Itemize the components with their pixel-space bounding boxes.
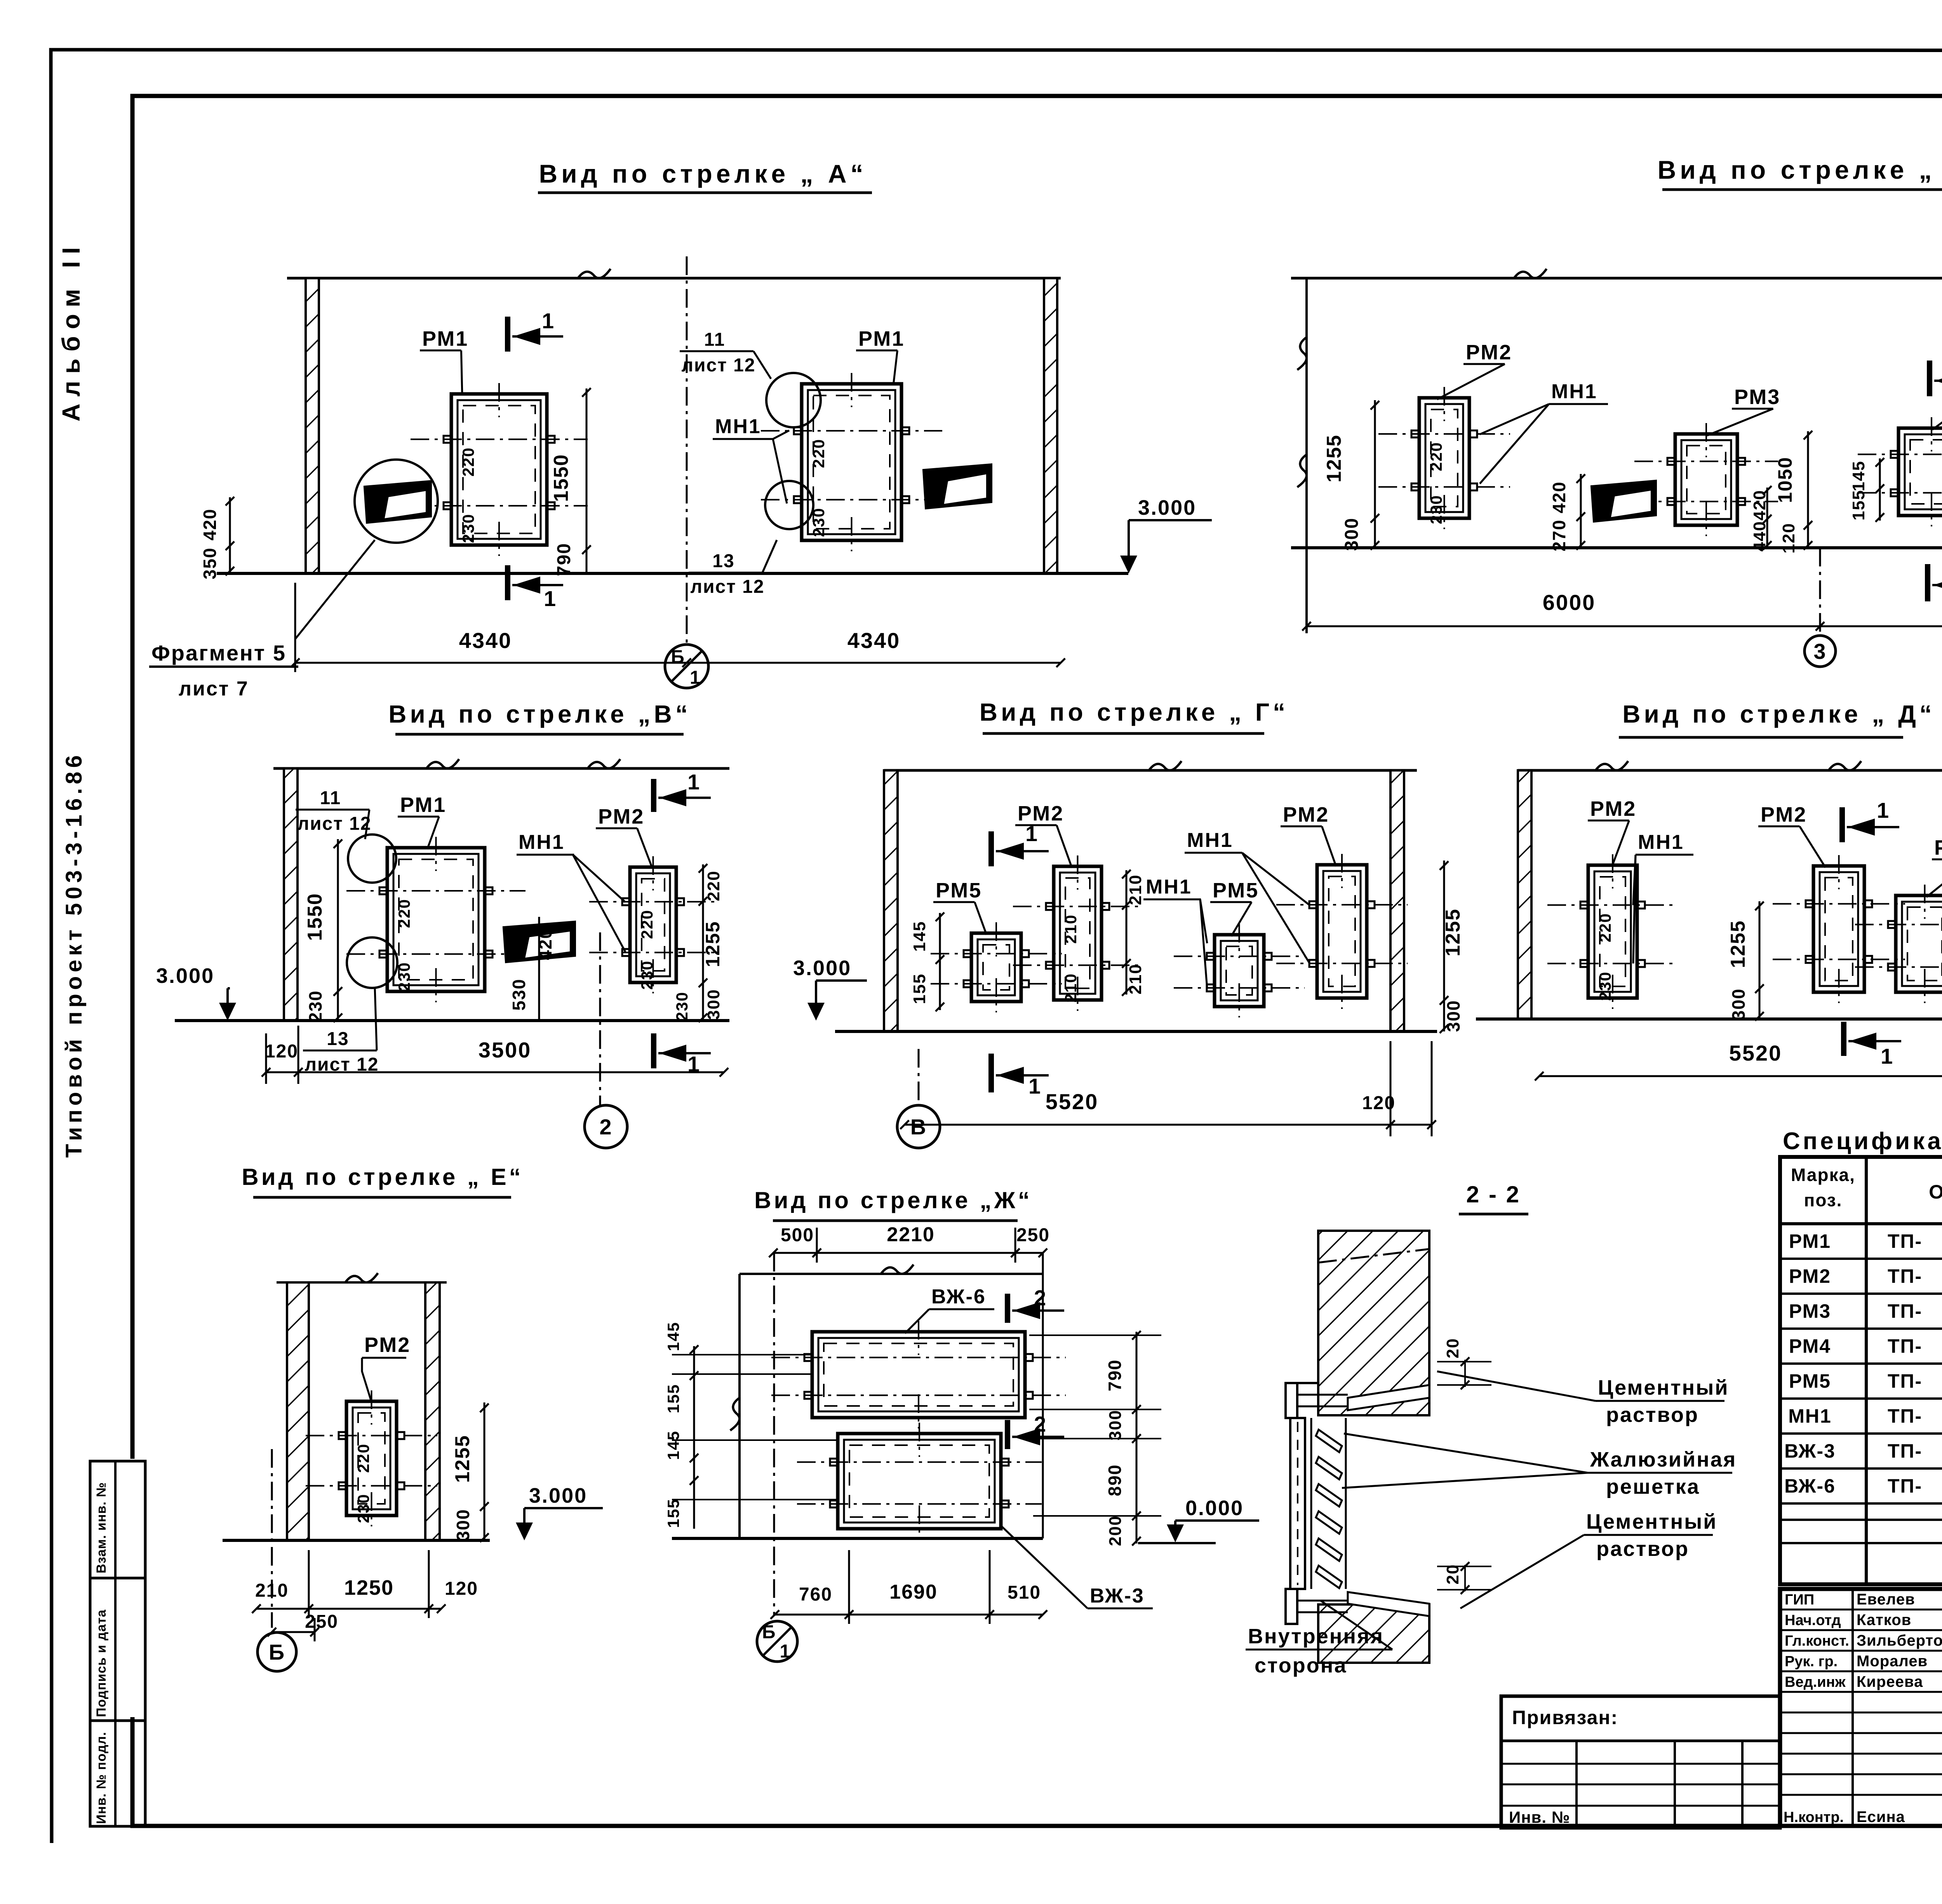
svg-text:220: 220 xyxy=(354,1443,372,1473)
svg-text:Б: Б xyxy=(762,1622,776,1643)
svg-text:1255: 1255 xyxy=(1442,908,1464,956)
view A frame RM1 #1 xyxy=(451,394,547,545)
view Zh section mark 2 upper xyxy=(1005,1294,1010,1323)
svg-text:1255: 1255 xyxy=(1323,434,1345,483)
view V dim 530/420 on wedge xyxy=(538,917,540,1021)
svg-text:1: 1 xyxy=(544,586,556,611)
view B axis line 3 xyxy=(1819,548,1821,633)
svg-text:РМ5: РМ5 xyxy=(1213,879,1259,902)
view E left pier hatch xyxy=(287,1282,309,1540)
view G frame RM5 #1 xyxy=(971,933,1021,1002)
svg-text:МН1: МН1 xyxy=(1788,1405,1832,1427)
view A dim 1550 right of frame1 xyxy=(586,388,588,573)
title block outline xyxy=(1780,1589,1942,1826)
title block signature grid xyxy=(1852,1589,1854,1826)
svg-text:ТП-: ТП- xyxy=(1888,1370,1922,1392)
view V callout circle top xyxy=(348,834,396,883)
svg-text:1550: 1550 xyxy=(550,454,573,502)
view V frame RM1 xyxy=(387,848,485,991)
svg-text:760: 760 xyxy=(799,1584,832,1605)
svg-text:1: 1 xyxy=(690,667,701,688)
svg-text:ВЖ-3: ВЖ-3 xyxy=(1090,1585,1145,1607)
view B frame RM3 #2 xyxy=(1898,428,1942,516)
svg-text:790: 790 xyxy=(1105,1359,1125,1392)
svg-text:155: 155 xyxy=(664,1498,682,1528)
svg-text:4340: 4340 xyxy=(459,628,512,653)
svg-text:300: 300 xyxy=(1728,988,1749,1021)
svg-text:210: 210 xyxy=(255,1580,289,1601)
svg-text:4340: 4340 xyxy=(847,628,901,653)
view B dim 1050/120 xyxy=(1807,431,1809,548)
svg-text:11: 11 xyxy=(704,329,726,350)
svg-text:Альбом II: Альбом II xyxy=(57,240,85,422)
section 2-2 louvre frame vertical xyxy=(1290,1418,1305,1589)
view B frame RM2 xyxy=(1419,398,1469,518)
svg-text:230: 230 xyxy=(354,1494,372,1523)
svg-text:2: 2 xyxy=(1034,1412,1046,1436)
svg-text:МН1: МН1 xyxy=(715,415,761,438)
svg-text:МН1: МН1 xyxy=(1187,829,1233,852)
svg-text:Вид по стрелке „В“: Вид по стрелке „В“ xyxy=(388,700,691,728)
view Zh frame VZh-3 xyxy=(838,1434,1001,1529)
section 2-2 lower frame part xyxy=(1286,1589,1297,1624)
view A axis line Б/1 xyxy=(686,256,688,644)
view Zh dims left 145/155/145/155 xyxy=(693,1346,695,1529)
view V wedge xyxy=(504,922,574,962)
view D left pier hatch xyxy=(1518,770,1531,1019)
svg-text:1: 1 xyxy=(780,1641,791,1662)
svg-text:230: 230 xyxy=(673,991,691,1021)
svg-text:1255: 1255 xyxy=(1727,920,1749,968)
svg-text:230: 230 xyxy=(459,514,477,543)
svg-text:13: 13 xyxy=(712,551,734,571)
view A callout circle MH1 bottom xyxy=(765,481,813,529)
svg-text:220: 220 xyxy=(638,909,656,939)
view Zh axis circle Б/1 xyxy=(757,1621,797,1662)
svg-text:Вид по стрелке „ Д“: Вид по стрелке „ Д“ xyxy=(1622,700,1935,728)
view G ground line xyxy=(835,1030,1437,1033)
svg-text:120: 120 xyxy=(265,1041,298,1062)
svg-text:лист 12: лист 12 xyxy=(691,577,765,597)
svg-text:420: 420 xyxy=(200,509,220,541)
svg-text:300: 300 xyxy=(1106,1409,1125,1440)
view B axis circle 3 xyxy=(1805,636,1836,667)
view Zh bottom dim row 760 1690 510 xyxy=(775,1614,1043,1616)
view Zh top dim row 500 2210 250 xyxy=(773,1252,1043,1254)
svg-text:530: 530 xyxy=(509,979,529,1011)
view A axis circle Б/1 xyxy=(665,645,708,688)
view B wall top line xyxy=(1291,277,1942,280)
view G frame RM5 #2 xyxy=(1215,935,1264,1007)
svg-text:РМ2: РМ2 xyxy=(1789,1265,1831,1287)
svg-text:13: 13 xyxy=(327,1029,349,1049)
svg-text:МН1: МН1 xyxy=(1638,831,1684,854)
svg-text:220: 220 xyxy=(459,447,477,477)
view B dims 145/155 left of RM4 xyxy=(1879,458,1881,521)
svg-text:3.000: 3.000 xyxy=(529,1484,587,1507)
svg-text:РМ2: РМ2 xyxy=(1466,341,1512,364)
svg-text:420: 420 xyxy=(1549,481,1569,514)
svg-text:3.000: 3.000 xyxy=(1138,496,1196,519)
svg-text:210: 210 xyxy=(1061,973,1080,1003)
svg-text:300: 300 xyxy=(453,1509,473,1541)
svg-text:ВЖ-6: ВЖ-6 xyxy=(1784,1475,1836,1497)
view D section mark lower xyxy=(1841,1022,1846,1056)
svg-text:3500: 3500 xyxy=(479,1038,532,1062)
section 2-2 louvre blades xyxy=(1316,1430,1342,1588)
svg-text:Киреева: Киреева xyxy=(1857,1673,1923,1690)
svg-text:Б: Б xyxy=(671,647,685,667)
svg-text:220: 220 xyxy=(395,899,413,928)
svg-text:Б: Б xyxy=(269,1640,285,1664)
svg-text:145: 145 xyxy=(1849,460,1868,491)
view G axis circle В xyxy=(918,1049,920,1105)
svg-text:145: 145 xyxy=(664,1430,682,1460)
view E dims 1255/300 right xyxy=(484,1402,486,1540)
svg-text:Вид по стрелке „ Г“: Вид по стрелке „ Г“ xyxy=(980,698,1289,726)
svg-text:ТП-: ТП- xyxy=(1888,1335,1922,1357)
svg-text:200: 200 xyxy=(1106,1515,1125,1546)
svg-text:Типовой проект 503-3-16.86: Типовой проект 503-3-16.86 xyxy=(61,751,87,1158)
svg-text:ТП-: ТП- xyxy=(1888,1440,1922,1462)
svg-text:300: 300 xyxy=(1342,517,1362,551)
view G frame RM2 #1 xyxy=(1054,866,1102,1000)
svg-text:145: 145 xyxy=(664,1322,682,1351)
view B dims 440/420 right of RM3#1 xyxy=(1766,488,1768,548)
svg-text:Вид по стрелке „ Б“: Вид по стрелке „ Б“ xyxy=(1658,155,1942,184)
svg-text:РМ2: РМ2 xyxy=(1283,803,1329,826)
svg-text:лист 12: лист 12 xyxy=(682,355,756,376)
svg-text:5520: 5520 xyxy=(1046,1089,1099,1114)
svg-text:МН1: МН1 xyxy=(1146,876,1192,898)
svg-text:Зильбертов: Зильбертов xyxy=(1857,1632,1942,1649)
view A dims 350 420 left xyxy=(229,497,231,573)
view Zh dims right 790/300/890/200 xyxy=(1136,1332,1138,1543)
svg-text:155: 155 xyxy=(1849,490,1868,520)
view B ground line xyxy=(1291,546,1942,549)
svg-text:1050: 1050 xyxy=(1774,456,1796,503)
svg-text:6000: 6000 xyxy=(1543,590,1596,615)
view D dim row 5520+210 xyxy=(1539,1075,1942,1077)
svg-text:Обозначение: Обозначение xyxy=(1929,1181,1942,1203)
left margin stamp boxes xyxy=(90,1461,145,1826)
view V frame RM2 xyxy=(630,867,676,982)
section 2-2 lower wall block xyxy=(1318,1604,1429,1663)
svg-text:20: 20 xyxy=(1443,1338,1462,1359)
svg-text:500: 500 xyxy=(781,1225,814,1246)
view A dim row 4340+4340 xyxy=(295,662,1061,664)
svg-text:1690: 1690 xyxy=(889,1581,938,1603)
svg-text:лист 7: лист 7 xyxy=(179,678,249,700)
view V axis circle 2 xyxy=(585,1105,627,1148)
svg-text:РМ2: РМ2 xyxy=(364,1333,411,1357)
svg-text:Марка,: Марка, xyxy=(1791,1165,1855,1185)
svg-text:Катков: Катков xyxy=(1857,1611,1911,1629)
svg-text:210: 210 xyxy=(1126,874,1145,905)
view G right pier hatch xyxy=(1390,770,1404,1031)
view G dims 1255/300 right xyxy=(1443,861,1445,1031)
view E axis circle Б xyxy=(258,1632,296,1671)
view G dim row 5520+120 xyxy=(905,1124,1432,1126)
view B dim row 6000+6000 xyxy=(1307,625,1942,627)
svg-text:11: 11 xyxy=(320,788,341,808)
svg-text:2: 2 xyxy=(599,1115,612,1139)
section 2-2 upper frame part xyxy=(1293,1382,1318,1384)
svg-text:350: 350 xyxy=(200,547,220,580)
section 2-2 upper wall block xyxy=(1318,1231,1429,1415)
view E axis line xyxy=(271,1449,273,1628)
svg-text:раствор: раствор xyxy=(1606,1403,1699,1427)
spec table grid xyxy=(1780,1157,1942,1584)
svg-text:Рук. гр.: Рук. гр. xyxy=(1785,1653,1838,1670)
view Zh ground line xyxy=(672,1537,1043,1540)
svg-text:Внутренняя: Внутренняя xyxy=(1248,1625,1384,1648)
svg-text:1255: 1255 xyxy=(451,1435,474,1483)
svg-text:РМ3: РМ3 xyxy=(1789,1300,1831,1322)
svg-text:5520: 5520 xyxy=(1729,1041,1782,1065)
svg-text:220: 220 xyxy=(1596,913,1614,942)
svg-text:1: 1 xyxy=(1877,798,1889,822)
view B dims 420/270 xyxy=(1580,474,1582,548)
svg-text:Цементный: Цементный xyxy=(1598,1376,1729,1399)
svg-text:ГИП: ГИП xyxy=(1785,1592,1814,1608)
view V dim row 120+3500 xyxy=(266,1071,724,1073)
view A right pier hatch xyxy=(1044,278,1057,573)
view A fragment leader xyxy=(295,540,375,639)
view E dim row 210 1250 120 xyxy=(256,1608,441,1610)
view Zh wall left edge xyxy=(738,1274,741,1538)
privyazan box xyxy=(1501,1696,1780,1828)
view A section mark 1 upper xyxy=(505,317,510,352)
view D frame RM3 xyxy=(1896,895,1942,992)
svg-text:3: 3 xyxy=(1813,639,1826,664)
svg-text:МН1: МН1 xyxy=(519,831,565,854)
svg-text:ТП-: ТП- xyxy=(1888,1475,1922,1497)
view E right pier hatch xyxy=(425,1282,440,1540)
view A callout circle MH1 top xyxy=(766,373,821,427)
svg-text:155: 155 xyxy=(664,1384,682,1413)
svg-text:Фрагмент 5: Фрагмент 5 xyxy=(151,641,286,665)
view G left pier hatch xyxy=(884,770,898,1031)
svg-text:790: 790 xyxy=(554,543,574,576)
svg-text:Гл.конст.: Гл.конст. xyxy=(1785,1633,1849,1649)
view V callout circle bottom xyxy=(347,937,397,988)
svg-text:решетка: решетка xyxy=(1606,1475,1700,1498)
svg-text:300: 300 xyxy=(704,989,723,1019)
svg-text:Н.контр.: Н.контр. xyxy=(1784,1809,1844,1826)
svg-text:ТП-: ТП- xyxy=(1888,1265,1922,1287)
svg-text:210: 210 xyxy=(1126,963,1145,994)
svg-text:РМ2: РМ2 xyxy=(1018,802,1064,825)
view D frame RM2 #1 xyxy=(1588,865,1637,998)
svg-text:120: 120 xyxy=(445,1578,478,1599)
view G frame RM2 #2 xyxy=(1317,865,1367,998)
view Zh frame VZh-6 xyxy=(812,1332,1025,1418)
view G section mark upper xyxy=(988,831,994,866)
svg-text:2: 2 xyxy=(1034,1286,1046,1310)
svg-text:лист 12: лист 12 xyxy=(298,814,372,834)
view A ground line xyxy=(217,572,1128,575)
svg-text:270: 270 xyxy=(1549,519,1569,552)
view E ground line xyxy=(223,1539,490,1542)
svg-text:250: 250 xyxy=(1016,1225,1050,1246)
svg-text:220: 220 xyxy=(809,439,828,468)
view G dims 210/210 right of RM2#1 xyxy=(1126,870,1128,995)
view B section mark 1 lower xyxy=(1925,564,1930,601)
view B left wall edge line xyxy=(1305,278,1308,633)
svg-text:230: 230 xyxy=(1596,971,1614,1001)
view G section mark lower xyxy=(988,1054,994,1092)
svg-text:Взам. инв. №: Взам. инв. № xyxy=(94,1482,109,1573)
svg-text:220: 220 xyxy=(1427,442,1445,471)
svg-text:РМ4: РМ4 xyxy=(1789,1335,1831,1357)
view V dims 220/1255/300 right xyxy=(702,864,704,1021)
svg-text:Спецификация элементов: Спецификация элементов обрамления проемо… xyxy=(1783,1128,1942,1155)
svg-text:Вид по стрелке „Ж“: Вид по стрелке „Ж“ xyxy=(754,1187,1032,1213)
svg-text:1550: 1550 xyxy=(304,893,326,941)
svg-text:3.000: 3.000 xyxy=(156,964,214,988)
svg-text:РМ3: РМ3 xyxy=(1734,385,1780,409)
view V section mark lower xyxy=(651,1033,656,1068)
view E dim 250 xyxy=(272,1631,315,1633)
view V dims 1550/230 left xyxy=(337,839,339,1021)
svg-text:ТП-: ТП- xyxy=(1888,1405,1922,1427)
view B frame RM3 #1 xyxy=(1675,434,1737,525)
svg-text:ВЖ-6: ВЖ-6 xyxy=(931,1286,986,1308)
svg-text:РМ3: РМ3 xyxy=(1934,836,1942,859)
svg-text:420: 420 xyxy=(1750,490,1769,520)
svg-text:Есина: Есина xyxy=(1857,1808,1905,1826)
view V ground line xyxy=(175,1019,729,1022)
svg-text:1: 1 xyxy=(1025,821,1037,846)
svg-text:2 - 2: 2 - 2 xyxy=(1466,1181,1521,1207)
view A frame RM1 #2 xyxy=(802,384,901,540)
svg-text:890: 890 xyxy=(1105,1464,1125,1496)
svg-text:раствор: раствор xyxy=(1596,1537,1689,1561)
svg-text:120: 120 xyxy=(1779,523,1798,553)
svg-text:Вид по стрелке „ А“: Вид по стрелке „ А“ xyxy=(539,159,867,188)
view G wall top line xyxy=(884,769,1417,772)
svg-text:Подпись и дата: Подпись и дата xyxy=(94,1609,109,1717)
view A fragment wedge xyxy=(365,482,430,522)
svg-text:ТП-: ТП- xyxy=(1888,1230,1922,1252)
svg-text:РМ1: РМ1 xyxy=(422,327,468,350)
view E frame RM2 xyxy=(346,1401,397,1516)
view Zh wall top line xyxy=(740,1273,1043,1275)
view G dims 145/155 left xyxy=(939,913,941,1010)
svg-text:1250: 1250 xyxy=(344,1576,394,1599)
svg-text:РМ1: РМ1 xyxy=(1789,1230,1831,1252)
svg-text:1255: 1255 xyxy=(702,921,724,967)
svg-text:В: В xyxy=(910,1115,927,1139)
svg-text:Евелев: Евелев xyxy=(1857,1591,1915,1608)
svg-text:210: 210 xyxy=(1061,914,1080,944)
view B dim 1255/300 left xyxy=(1374,400,1376,548)
svg-text:Инв. №: Инв. № xyxy=(1509,1808,1570,1826)
view V axis line 2 xyxy=(599,932,601,1107)
view A wall top line xyxy=(287,277,1061,280)
view D wall top line xyxy=(1518,769,1942,772)
svg-text:РМ1: РМ1 xyxy=(400,793,446,817)
view D ground line xyxy=(1476,1017,1942,1021)
view V wall top line xyxy=(273,767,729,770)
svg-text:РМ5: РМ5 xyxy=(1789,1370,1831,1392)
view D frame RM2 #2 xyxy=(1813,866,1864,992)
svg-text:РМ2: РМ2 xyxy=(1590,797,1636,820)
view Zh wall right edge xyxy=(1042,1253,1044,1538)
view V section mark upper xyxy=(651,779,656,812)
svg-text:0.000: 0.000 xyxy=(1185,1496,1244,1520)
view B wedge #1 xyxy=(1592,481,1655,521)
svg-text:Вид по стрелке „ Е“: Вид по стрелке „ Е“ xyxy=(242,1164,523,1190)
svg-text:440: 440 xyxy=(1750,521,1769,551)
svg-text:220: 220 xyxy=(704,870,723,901)
svg-text:3.000: 3.000 xyxy=(793,956,851,980)
svg-text:МН1: МН1 xyxy=(1551,380,1597,403)
svg-text:ВЖ-3: ВЖ-3 xyxy=(1784,1440,1836,1462)
view D section mark upper xyxy=(1839,807,1845,842)
svg-text:РМ2: РМ2 xyxy=(1761,803,1807,826)
svg-text:Моралев: Моралев xyxy=(1857,1653,1928,1670)
svg-text:Инв. № подл.: Инв. № подл. xyxy=(94,1732,109,1824)
view A wedge right xyxy=(924,465,991,508)
svg-text:510: 510 xyxy=(1008,1582,1041,1603)
view Zh section mark 2 lower xyxy=(1005,1420,1010,1449)
svg-text:155: 155 xyxy=(910,973,929,1004)
view D dims 1255/300 left xyxy=(1759,901,1761,1019)
svg-text:145: 145 xyxy=(910,921,929,951)
svg-text:1: 1 xyxy=(542,308,554,333)
svg-text:Нач.отд: Нач.отд xyxy=(1785,1612,1841,1629)
view B section mark 1 upper xyxy=(1927,361,1932,396)
view V left pier hatch xyxy=(284,768,298,1021)
svg-text:230: 230 xyxy=(1427,495,1445,524)
svg-text:2210: 2210 xyxy=(887,1223,935,1246)
svg-text:Привязан:: Привязан: xyxy=(1512,1707,1618,1728)
view A left pier hatch xyxy=(306,278,319,573)
svg-text:420: 420 xyxy=(535,928,555,960)
svg-text:Вед.инж: Вед.инж xyxy=(1785,1674,1846,1690)
svg-text:Жалюзийная: Жалюзийная xyxy=(1590,1448,1737,1471)
svg-text:230: 230 xyxy=(638,960,656,990)
view Zh axis line xyxy=(773,1253,775,1616)
svg-text:300: 300 xyxy=(1443,1000,1463,1032)
svg-text:РМ2: РМ2 xyxy=(598,805,644,828)
view A section mark 1 lower xyxy=(505,565,510,600)
view E top line xyxy=(277,1281,447,1284)
svg-text:1: 1 xyxy=(687,770,700,794)
svg-text:1: 1 xyxy=(1028,1074,1041,1098)
svg-text:сторона: сторона xyxy=(1255,1654,1347,1677)
svg-text:250: 250 xyxy=(305,1611,338,1632)
view A fragment callout circle xyxy=(355,460,438,543)
svg-text:1: 1 xyxy=(1881,1044,1893,1068)
svg-text:поз.: поз. xyxy=(1804,1190,1843,1210)
svg-text:РМ1: РМ1 xyxy=(858,327,905,350)
svg-text:РМ5: РМ5 xyxy=(936,879,982,902)
svg-text:ТП-: ТП- xyxy=(1888,1300,1922,1322)
svg-text:230: 230 xyxy=(305,990,325,1023)
svg-text:Цементный: Цементный xyxy=(1586,1510,1717,1533)
